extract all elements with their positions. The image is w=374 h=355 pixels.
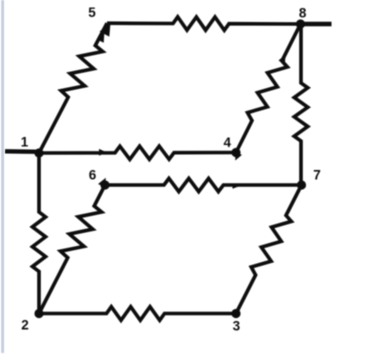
svg-text:3: 3: [233, 319, 241, 334]
svg-text:1: 1: [21, 135, 29, 150]
svg-text:6: 6: [89, 168, 97, 183]
svg-text:4: 4: [224, 135, 232, 150]
svg-text:8: 8: [299, 5, 307, 20]
svg-text:5: 5: [88, 5, 96, 20]
svg-text:7: 7: [313, 168, 321, 183]
svg-text:2: 2: [21, 318, 29, 333]
